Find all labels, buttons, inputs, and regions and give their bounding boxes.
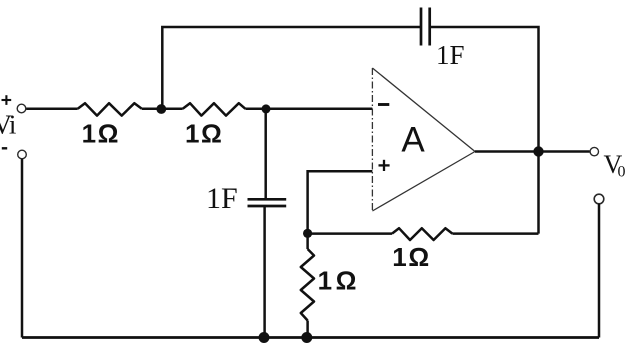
wire: from + terminal to R1 xyxy=(26,108,77,111)
wire: R2 to op-amp inverting input through node C xyxy=(245,108,372,111)
label: source plus sign xyxy=(2,95,12,105)
capacitor C1 1F top feedback xyxy=(421,8,430,46)
resistor R2 1ohm xyxy=(183,103,246,115)
svg-text:0: 0 xyxy=(618,164,626,181)
svg-text:A: A xyxy=(401,121,425,160)
svg-text:1Ω: 1Ω xyxy=(392,242,431,272)
wire: node C down to C2 top plate xyxy=(264,109,267,198)
svg-text:1F: 1F xyxy=(436,40,465,70)
label: source minus sign xyxy=(2,147,7,149)
terminal: input + terminal circle xyxy=(17,104,26,113)
op-amp inverting pin minus sign xyxy=(378,103,389,106)
node C junction dot xyxy=(262,104,271,113)
wire: lower output terminal down to ground rail xyxy=(598,204,601,338)
label Vo xyxy=(604,150,626,181)
wire: R3 right lead xyxy=(452,232,538,235)
node E output junction dot xyxy=(533,146,543,156)
node: C2 ground junction dot xyxy=(259,332,270,343)
node: R4 ground junction dot xyxy=(301,332,312,343)
node B junction dot xyxy=(156,104,166,114)
wire: non-inverting input elbow to node D xyxy=(308,171,373,229)
svg-text:1Ω: 1Ω xyxy=(318,266,361,296)
terminal: lower output terminal circle xyxy=(594,194,604,204)
wire: ground rail bottom xyxy=(22,336,599,339)
wire: R4 bottom lead to ground rail xyxy=(306,321,309,338)
wire: top rail right segment down to output node xyxy=(430,27,539,152)
svg-text:1Ω: 1Ω xyxy=(185,119,224,149)
wire: output node down to feedback resistor R3 xyxy=(537,152,540,234)
wire: R1 to R2 through node B xyxy=(142,108,183,111)
svg-text:1F: 1F xyxy=(206,182,238,215)
op-amp U1 A triangle xyxy=(372,68,475,211)
node D junction dot xyxy=(303,229,312,238)
wire: C2 bottom plate down to ground rail xyxy=(263,207,266,338)
wire: left return from - terminal down to ground rail xyxy=(21,159,24,338)
svg-text:1Ω: 1Ω xyxy=(82,119,121,149)
capacitor C2 1F shunt xyxy=(248,199,287,206)
wire: left feedback rail from node B up and across top xyxy=(162,27,421,109)
svg-text:Vi: Vi xyxy=(0,110,16,140)
wire: node D down to R4 xyxy=(306,233,309,249)
terminal: Vo output terminal circle xyxy=(590,147,598,155)
resistor R1 1ohm xyxy=(78,103,142,115)
wire: op-amp output to Vo terminal xyxy=(475,150,590,153)
wire: R3 left lead to node D xyxy=(308,232,392,235)
resistor R4 1ohm to ground xyxy=(301,249,314,321)
op-amp non-inverting pin plus sign xyxy=(379,160,390,171)
terminal: input - terminal circle xyxy=(18,150,27,159)
resistor R3 1ohm feedback xyxy=(392,228,452,240)
